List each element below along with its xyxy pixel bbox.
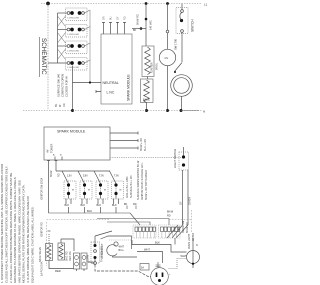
svg-text:WHT: WHT [144, 248, 150, 252]
svg-text:L1 H1 L0 H2: L1 H1 L0 H2 [68, 67, 80, 69]
surface switch bank [48, 8, 90, 83]
svg-text:TOWER: TOWER [51, 144, 54, 153]
svg-text:RD: RD [167, 215, 171, 218]
svg-text:M: M [72, 190, 74, 192]
svg-text:GRILLE BU-L C/BK: GRILLE BU-L C/BK [126, 176, 129, 198]
terminal strip 1 [133, 225, 156, 238]
wire: crossover diagonals [58, 16, 66, 60]
oven gas valve circle [159, 49, 175, 65]
svg-text:BLK: BLK [87, 209, 92, 213]
svg-text:BAKE VALVE: BAKE VALVE [39, 247, 42, 262]
wire: receptacle bottom stubs [77, 269, 85, 271]
svg-text:LP CONV KIT: LP CONV KIT [101, 243, 104, 259]
svg-text:1A PCA DHK: 1A PCA DHK [41, 261, 44, 276]
spark module box (schematic) [101, 34, 132, 104]
bake igniter (wiring) [46, 231, 53, 261]
receptacle blocks [74, 253, 88, 269]
wire: plug to lamp dashed [169, 259, 187, 269]
wire: left schematic dashed rail [47, 4, 49, 111]
wire: left bus of switch bank [57, 13, 59, 63]
svg-text:BK: BK [55, 103, 58, 107]
svg-text:OVEN LIGHT: OVEN LIGHT [188, 233, 191, 249]
svg-text:BK/W: BK/W [167, 211, 174, 214]
svg-text:N: N [203, 110, 205, 114]
wire: runs into terminal strips [97, 206, 188, 239]
svg-text:BK/W RD: BK/W RD [137, 14, 140, 25]
surface switch SW4 [48, 58, 87, 71]
svg-text:SPARK MODULE: SPARK MODULE [57, 130, 86, 134]
terminal strip 2 [159, 225, 181, 238]
svg-text:SCHEMATIC: SCHEMATIC [40, 38, 47, 75]
svg-text:L1 H1 L0 H2: L1 H1 L0 H2 [68, 34, 80, 36]
svg-text:BLK: BLK [97, 204, 102, 207]
gas valve (wiring) [101, 236, 138, 257]
igniter switch 4 [112, 181, 124, 199]
pin 2 [109, 22, 112, 34]
wire: module bottom leads [47, 157, 62, 214]
wire: top L1 dashed bus [41, 3, 202, 5]
wire: module outputs right [110, 132, 183, 158]
svg-text:M: M [104, 190, 106, 192]
svg-text:GY: GY [180, 201, 183, 205]
label pin tags rotated [103, 16, 127, 20]
svg-text:BROIL: BROIL [156, 62, 159, 70]
svg-text:BLK: BLK [81, 204, 86, 207]
surface switch SW3 [58, 41, 88, 54]
wire: row feed bus [56, 170, 110, 172]
svg-text:RED: RED [55, 269, 61, 273]
svg-text:L NC: L NC [107, 91, 115, 95]
wire: bottom run to power cord [95, 265, 151, 277]
svg-text:M: M [120, 190, 122, 192]
svg-text:OR: OR [103, 16, 106, 20]
svg-text:IGNITOR RD-BK SURFACE GY-L: IGNITOR RD-BK SURFACE GY-L [141, 162, 144, 200]
svg-text:BLK: BLK [155, 241, 160, 245]
node: junction igniter rail [145, 2, 148, 5]
svg-text:HV: HV [47, 149, 50, 153]
svg-text:GY/OR: GY/OR [192, 233, 195, 241]
svg-text:BK/W + RD TOP BURNER: BK/W + RD TOP BURNER [145, 170, 148, 200]
svg-text:SURFACE SW/GN IGNITOR BK-W: SURFACE SW/GN IGNITOR BK-W [137, 160, 140, 200]
resistor: broil igniter [142, 46, 154, 77]
pin 4 [123, 22, 126, 34]
svg-text:LIGHT SWITCH: LIGHT SWITCH [173, 149, 177, 168]
svg-text:RD: RD [124, 16, 127, 20]
svg-text:N: N [196, 244, 198, 247]
svg-text:IGNITER: IGNITER [150, 62, 154, 73]
spark module box (wiring) [44, 127, 110, 160]
svg-text:BLK: BLK [65, 204, 70, 207]
svg-text:DOOR SW: DOOR SW [182, 220, 185, 233]
svg-text:5A: 5A [141, 267, 144, 270]
svg-text:SURFACE BU-L RD: SURFACE BU-L RD [130, 175, 133, 198]
node: tap to module [140, 27, 143, 30]
svg-text:BU-L + RD: BU-L + RD [144, 139, 147, 151]
wire: neutral run [71, 66, 101, 113]
big dashed enclosure (partial) [47, 210, 192, 266]
wire: dotted aux line [110, 157, 183, 159]
svg-text:WHT: WHT [181, 254, 187, 258]
svg-text:EQUIVALENT 105 C WIRE. CAUTION: EQUIVALENT 105 C WIRE. CAUTION LABEL ALL… [30, 206, 34, 283]
svg-text:BU: BU [110, 16, 113, 20]
wire: NC stub [96, 90, 101, 93]
svg-text:BK/W + RD: BK/W + RD [140, 138, 143, 151]
igniter switch 2 [80, 181, 92, 199]
svg-text:GY/OR: GY/OR [189, 197, 192, 205]
svg-text:SWITCH: SWITCH [191, 19, 195, 32]
label plug fuse box [140, 264, 149, 271]
igniter switch 3 [96, 181, 108, 199]
wire: BLK / WHT runs to lamp [132, 238, 187, 263]
svg-text:SURFACE SW 140: SURFACE SW 140 [57, 73, 61, 97]
notes text block rotated columns [0, 163, 34, 283]
svg-text:140 VAC: 140 VAC [150, 20, 153, 30]
pin 3 [116, 22, 119, 34]
pin 1 [102, 22, 105, 34]
svg-text:SW 1700: SW 1700 [174, 38, 178, 50]
wire: rule beside SCHEMATIC label [39, 37, 41, 77]
thermostat chain [77, 231, 151, 277]
svg-text:BLK: BLK [112, 204, 117, 207]
igniter branch (schematic) [132, 4, 154, 113]
svg-text:BK/W RD: BK/W RD [186, 222, 189, 233]
svg-text:BK: BK [133, 29, 137, 32]
igniter switch 1 [64, 181, 76, 199]
svg-text:RD: RD [58, 173, 61, 177]
svg-text:CONTACTS OPEN: CONTACTS OPEN [61, 74, 65, 97]
svg-text:RD: RD [63, 103, 66, 107]
svg-text:BU-L: BU-L [119, 249, 125, 252]
svg-text:IGNITOR RD: IGNITOR RD [41, 222, 44, 237]
svg-text:RED PG: RED PG [69, 251, 72, 261]
oven lamp (wiring) [187, 238, 200, 268]
power cord plug [151, 259, 187, 285]
svg-text:GV: GV [165, 57, 169, 60]
wire: BLK bus [49, 212, 131, 214]
surface switch SW1 [58, 8, 88, 21]
switch blade [175, 63, 183, 72]
wire: right collector [85, 10, 91, 83]
resistor: bake igniter [141, 79, 154, 103]
svg-text:TJN: TJN [114, 175, 119, 178]
wire: RED bottom run [49, 261, 74, 269]
oven lamp double circle [171, 75, 193, 97]
svg-text:BK: BK [124, 203, 128, 206]
node: junction valve rail [166, 2, 169, 5]
svg-text:CLOSED FOR HI: CLOSED FOR HI [65, 76, 69, 97]
svg-text:5JN: 5JN [83, 175, 88, 178]
broil igniter (wiring) [58, 239, 74, 260]
light switch branch (schematic) [171, 4, 193, 113]
svg-text:BAKE: BAKE [143, 99, 150, 102]
wire: neutral dashed separator [23, 110, 202, 112]
svg-text:L1 H1 L0 H2: L1 H1 L0 H2 [68, 18, 80, 20]
svg-text:SPARK MODULE: SPARK MODULE [127, 74, 131, 101]
wire: igniter rail [145, 4, 147, 47]
light switch (wiring) [179, 147, 189, 225]
svg-text:GY: GY [117, 16, 120, 20]
gas valve branch (schematic) [159, 4, 175, 113]
svg-text:M: M [88, 190, 90, 192]
svg-text:BK/W: BK/W [50, 170, 53, 177]
svg-text:L1 H1 L0 H2: L1 H1 L0 H2 [68, 51, 80, 53]
svg-text:1JN: 1JN [67, 175, 72, 178]
igniter switch row [56, 171, 124, 213]
svg-text:TJN: TJN [99, 175, 104, 178]
spark module pins (schematic) [102, 22, 126, 34]
svg-text:NEUTRAL: NEUTRAL [103, 81, 119, 85]
svg-text:IGNITOR SW 12GA: IGNITOR SW 12GA [41, 177, 44, 200]
node: L1 junction left [46, 2, 50, 6]
svg-text:L1: L1 [204, 3, 208, 7]
surface switch SW2 [58, 25, 88, 38]
svg-text:CONV: CONV [87, 254, 90, 262]
svg-text:RD: RD [133, 203, 137, 206]
